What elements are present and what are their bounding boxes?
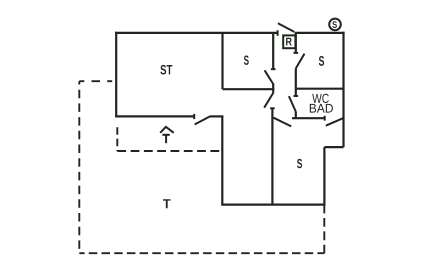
R box — [283, 35, 295, 48]
wall ST / S1 divider — [221, 33, 223, 89]
wall ST bottom left segment — [115, 115, 194, 117]
wall ST bottom right segment — [210, 115, 223, 117]
wall WC top — [296, 88, 344, 90]
jamb tick S1 door — [271, 68, 276, 70]
door leaf middle room — [264, 93, 273, 108]
label BAD — [310, 104, 333, 113]
label ST — [160, 65, 172, 75]
jamb tick middle door — [270, 107, 275, 109]
jamb tick WC door — [294, 95, 299, 97]
jamb tick top door — [277, 30, 279, 36]
jamb tick S2 door — [294, 52, 299, 54]
door leaf WC-S3 — [326, 118, 343, 126]
jamb tick entrance door — [193, 114, 195, 119]
label circled S — [332, 21, 337, 28]
label S room2 — [319, 56, 324, 66]
wall S1 bottom — [223, 88, 275, 90]
wall top, left segment — [115, 32, 278, 34]
label T terrace — [163, 199, 171, 208]
entrance arrow — [160, 127, 174, 143]
wall lower-left exterior — [221, 116, 223, 204]
door leaf S3 — [274, 118, 292, 127]
label WC — [312, 94, 329, 103]
wall notch horizontal — [324, 146, 343, 148]
dashed porch horizontal — [117, 150, 222, 152]
label R — [286, 38, 292, 46]
label S room1 — [244, 56, 249, 65]
door leaf WC — [289, 96, 296, 112]
wall hallway left upper — [272, 33, 274, 69]
wall hallway left middle — [272, 84, 274, 93]
dashed terrace line upper horizontal — [79, 80, 116, 82]
stove symbol circle S — [329, 19, 341, 31]
wall hallway right upper — [295, 33, 297, 53]
wall hallway right lower — [295, 112, 297, 119]
label S room3 — [297, 159, 302, 168]
wall right exterior — [342, 32, 344, 147]
wall bottom exterior — [221, 204, 325, 206]
wall hallway right middle — [295, 68, 297, 96]
wall hallway left lower — [271, 108, 273, 204]
wall left exterior — [115, 32, 117, 118]
dashed terrace line right vertical — [323, 205, 325, 254]
door leaf S1 — [265, 70, 274, 84]
dashed terrace line left vertical — [78, 81, 80, 253]
jamb tick WC-S3 door — [324, 116, 326, 121]
door leaf S2 — [296, 54, 305, 69]
wall notch vertical — [323, 147, 325, 206]
wall WC bottom — [292, 117, 325, 119]
dashed porch vertical — [116, 127, 118, 151]
dashed terrace line bottom horizontal — [79, 252, 324, 254]
wall top, right segment — [295, 32, 345, 34]
door leaf entrance top — [278, 23, 294, 32]
door leaf main entrance — [195, 116, 211, 124]
